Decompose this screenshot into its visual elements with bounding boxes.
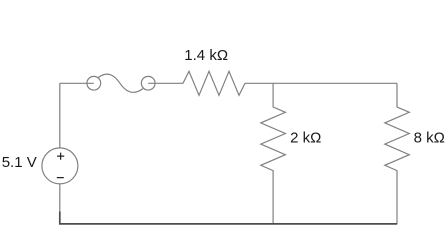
svg-text:8 kΩ: 8 kΩ [414,130,445,147]
svg-text:2 kΩ: 2 kΩ [290,129,321,146]
svg-text:5.1 V: 5.1 V [2,154,37,171]
svg-text:1.4 kΩ: 1.4 kΩ [184,47,228,64]
